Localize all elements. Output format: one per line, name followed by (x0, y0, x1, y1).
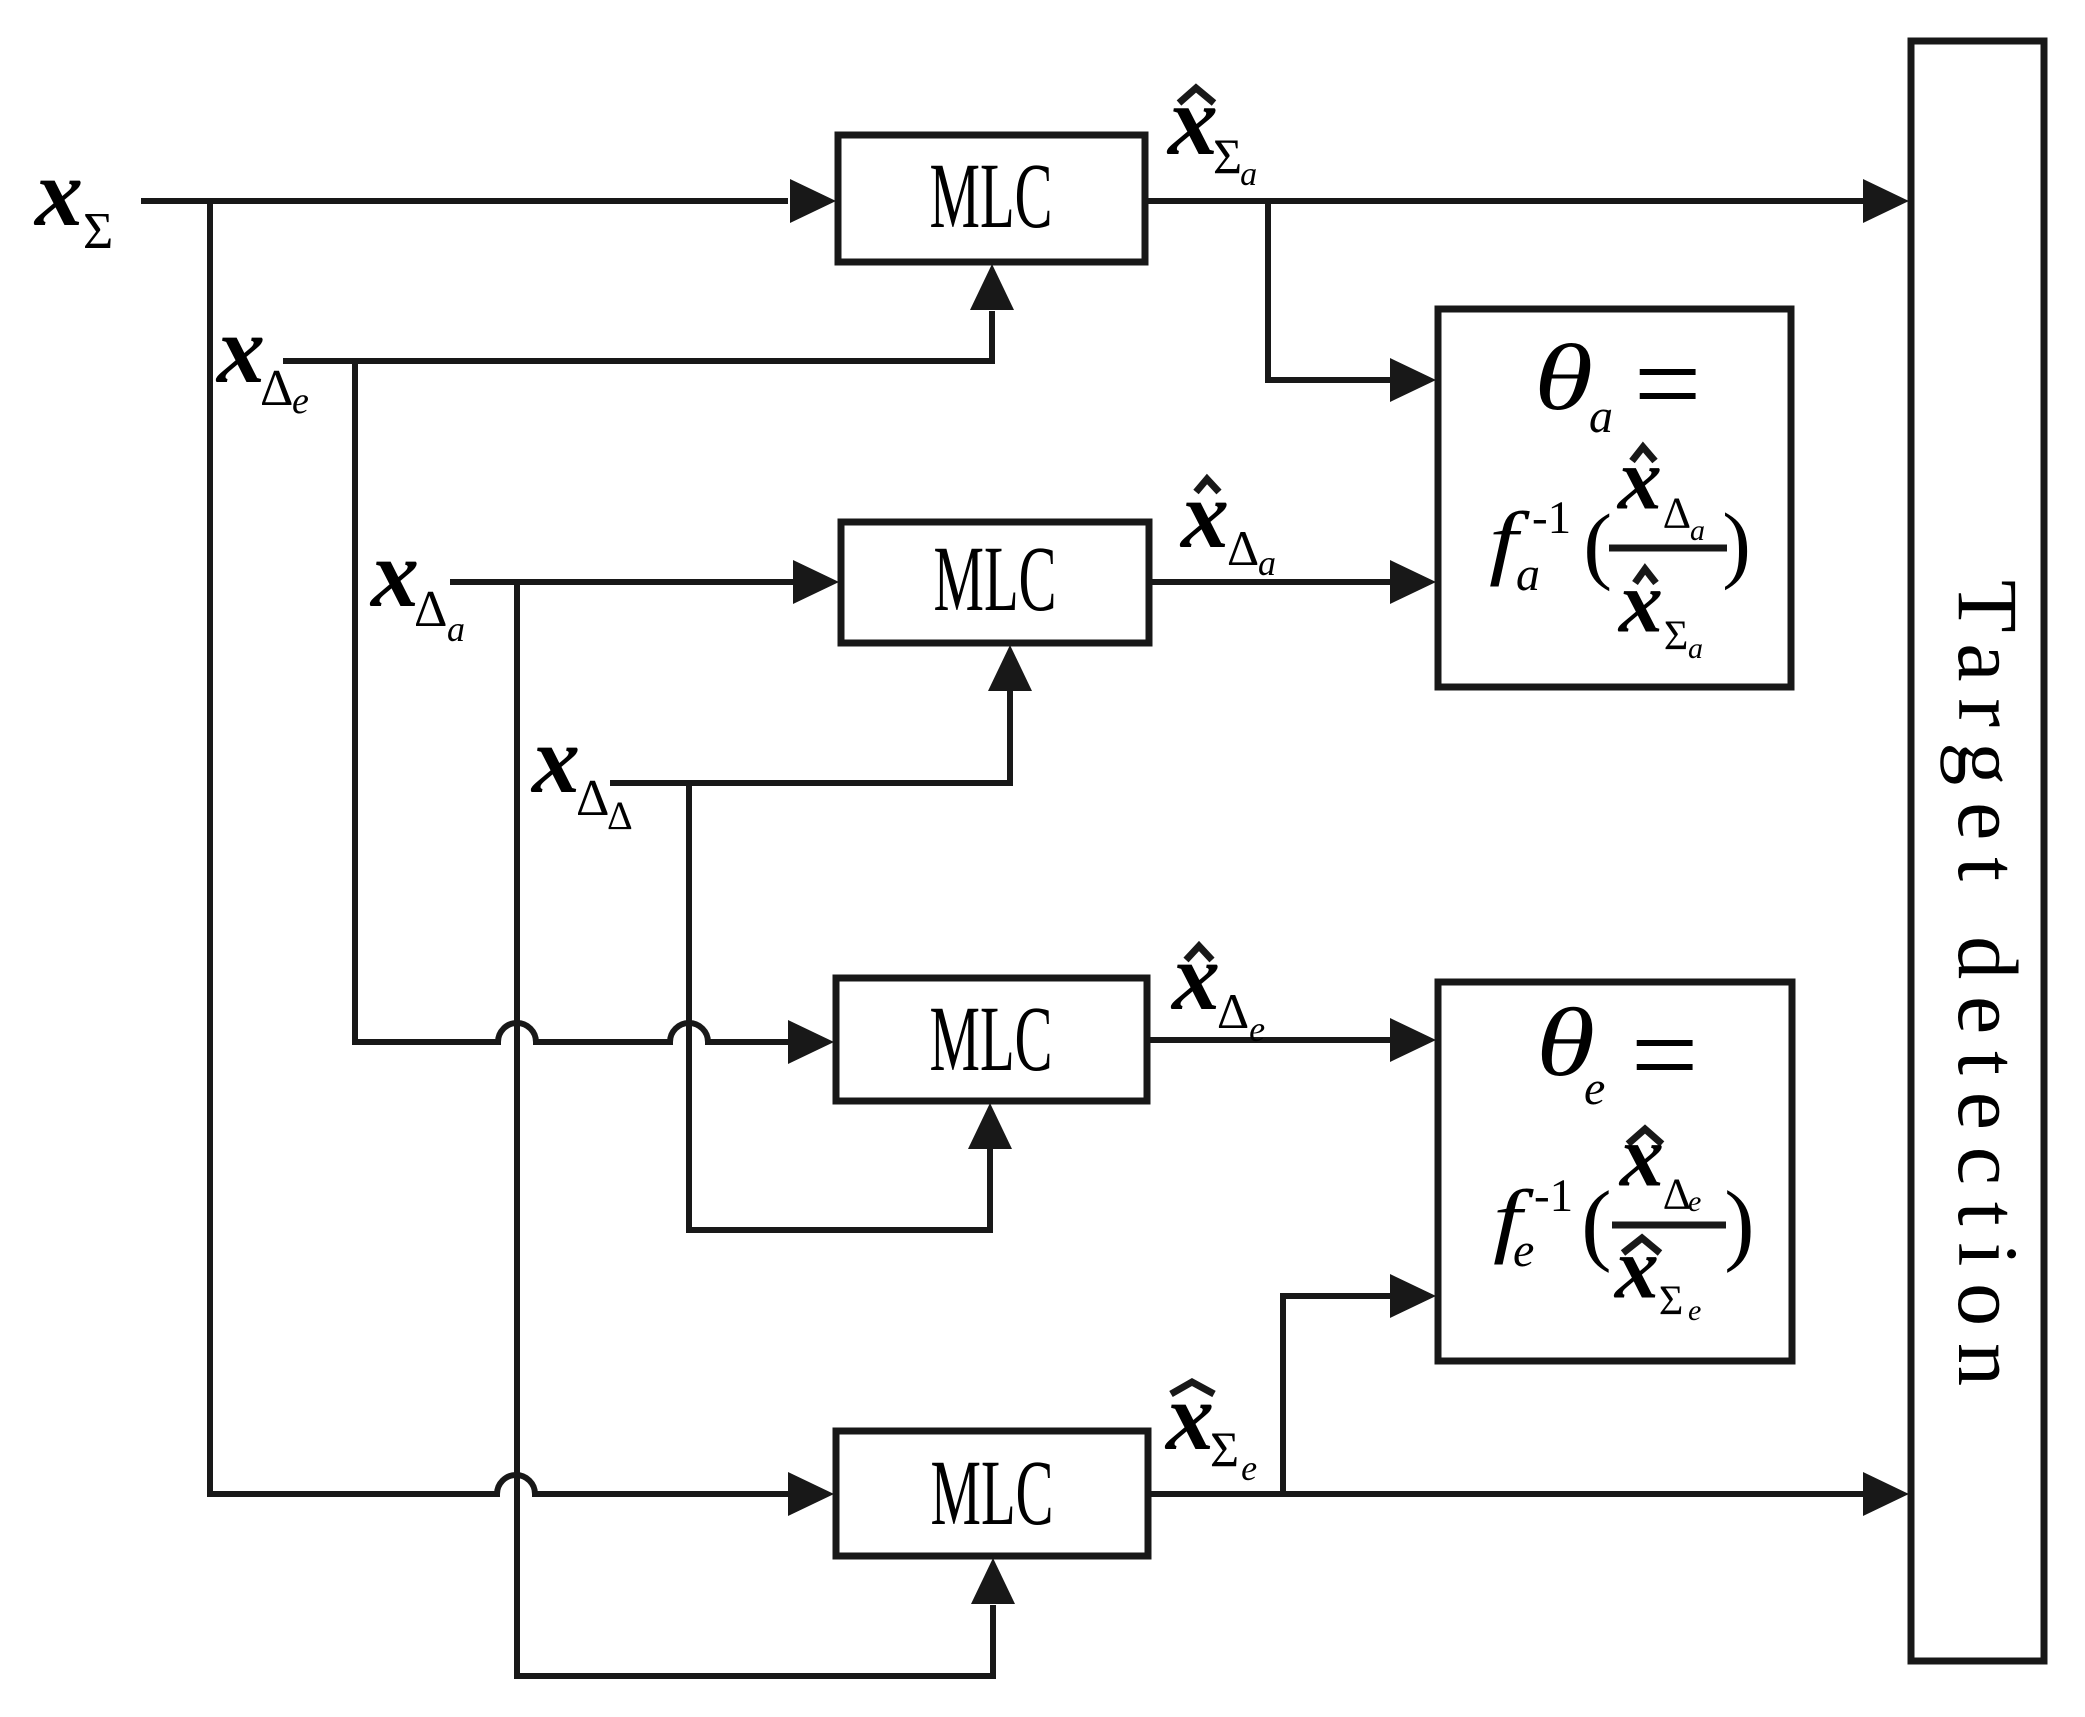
svg-text:x: x (215, 296, 265, 403)
block Target detection (1911, 41, 2044, 1661)
svg-text:e: e (1513, 1224, 1534, 1277)
wire x_sigma to MLC1 (141, 198, 788, 204)
svg-text:x: x (1616, 431, 1662, 528)
arrowhead into MLC4 bottom (971, 1558, 1015, 1604)
block MLC1 (838, 135, 1145, 262)
svg-text:Δ: Δ (576, 770, 609, 827)
svg-text:θ: θ (1534, 326, 1593, 430)
svg-text:=: = (1631, 988, 1699, 1121)
svg-text:a: a (1688, 632, 1703, 665)
svg-text:MLC: MLC (931, 1442, 1054, 1545)
hat of xhat_sigma_a (1179, 88, 1214, 103)
svg-text:Σ: Σ (1659, 1278, 1683, 1324)
svg-text:e: e (1688, 1294, 1701, 1327)
svg-text:Δ: Δ (1663, 1170, 1691, 1219)
hat of denominator xhat_sigma_e (1623, 1238, 1660, 1253)
svg-text:x: x (33, 139, 83, 246)
svg-text:x: x (369, 520, 419, 627)
svg-text:e: e (1688, 1185, 1701, 1218)
block theta_a estimator (1438, 309, 1791, 687)
svg-text:Σ: Σ (1664, 613, 1688, 659)
hat of denominator xhat_sigma_a (1635, 569, 1656, 583)
arrowhead into MLC4 left (788, 1472, 834, 1516)
svg-text:a: a (1516, 548, 1540, 601)
svg-text:): ) (1724, 1173, 1754, 1274)
arrowhead into MLC3 left (788, 1020, 834, 1064)
svg-text:e: e (292, 380, 309, 422)
arrowhead into theta_a upper input (1390, 358, 1436, 402)
svg-text:a: a (1589, 390, 1613, 443)
wire xhat_delta_a to theta_a box (1149, 579, 1392, 585)
svg-text:Σ: Σ (1210, 1421, 1239, 1477)
block MLC3 (836, 978, 1147, 1101)
fraction bar of theta_a (1609, 545, 1727, 552)
hat of xhat_sigma_e (1171, 1382, 1214, 1394)
wire xhat_sigma_a branch to theta_a box (1268, 201, 1392, 380)
svg-text:(: ( (1583, 496, 1612, 592)
svg-text:x: x (1613, 1220, 1659, 1317)
hat of numerator xhat_delta_e (1628, 1129, 1662, 1144)
svg-text:Δ: Δ (1663, 489, 1691, 538)
arrowhead into theta_a lower input (1390, 560, 1436, 604)
hat of numerator xhat_delta_a (1632, 447, 1655, 461)
wire xhat_sigma_a to Target detection (1145, 198, 1864, 204)
block MLC2 (841, 522, 1149, 643)
svg-text:x: x (1164, 1363, 1214, 1470)
svg-text:(: ( (1581, 1173, 1611, 1274)
svg-text:x: x (1618, 1108, 1664, 1205)
svg-text:e: e (1241, 1448, 1257, 1488)
svg-text:x: x (1170, 923, 1220, 1030)
wire x_delta_a branch down to MLC4 bottom (517, 582, 993, 1676)
arrowhead into theta_e lower input (1390, 1274, 1436, 1318)
svg-text:Δ: Δ (260, 360, 293, 417)
arrowhead into Target detection top (1863, 179, 1909, 223)
svg-text:e: e (1584, 1062, 1605, 1115)
svg-text:x: x (1166, 65, 1218, 176)
svg-text:Σ: Σ (1213, 128, 1242, 184)
arrowhead into theta_e upper input (1390, 1018, 1436, 1062)
block theta_e estimator (1438, 982, 1792, 1361)
block MLC4 (836, 1431, 1148, 1556)
svg-text:MLC: MLC (930, 988, 1053, 1091)
arrowhead into MLC2 left (793, 560, 839, 604)
wire x_sigma branch down to MLC4 (210, 198, 788, 1494)
hat of xhat_delta_a (1196, 479, 1219, 492)
arrowhead into MLC1 bottom (970, 264, 1014, 310)
svg-text:a: a (447, 609, 465, 649)
wire x_delta_a to MLC2 (450, 579, 793, 585)
svg-text:-1: -1 (1534, 1170, 1573, 1222)
wire xhat_sigma_e to Target detection (1148, 1491, 1864, 1497)
svg-text:-1: -1 (1532, 492, 1571, 544)
wire x_delta_e branch down to MLC3 (355, 361, 788, 1042)
svg-text:x: x (1617, 554, 1663, 651)
svg-text:Σ: Σ (83, 203, 113, 260)
svg-text:x: x (530, 706, 580, 813)
svg-text:MLC: MLC (934, 528, 1057, 631)
svg-text:MLC: MLC (930, 145, 1053, 248)
arrowhead into Target detection bottom (1863, 1472, 1909, 1516)
arrowhead into MLC1 left (790, 179, 836, 223)
svg-text:x: x (1179, 461, 1229, 568)
svg-text:=: = (1634, 317, 1702, 450)
wire xhat_sigma_e branch to theta_e box (1283, 1296, 1392, 1494)
svg-text:Δ: Δ (1227, 520, 1259, 576)
wire xhat_delta_e to theta_e box (1147, 1037, 1392, 1043)
svg-text:a: a (1240, 156, 1257, 193)
svg-text:e: e (1249, 1009, 1265, 1049)
svg-text:): ) (1722, 495, 1751, 591)
svg-text:Δ: Δ (607, 793, 633, 838)
wire x_delta_delta branch down to MLC3 bottom (689, 783, 990, 1230)
svg-text:a: a (1690, 514, 1705, 547)
hat of xhat_delta_e (1186, 946, 1212, 960)
wire x_delta_e to MLC1 bottom (283, 311, 992, 361)
arrowhead into MLC2 bottom (988, 645, 1032, 691)
arrowhead into MLC3 bottom (968, 1103, 1012, 1149)
svg-text:a: a (1258, 543, 1276, 583)
wire x_delta_delta to MLC2 bottom (610, 691, 1010, 783)
fraction bar of theta_e (1612, 1222, 1726, 1229)
svg-text:Δ: Δ (1217, 983, 1249, 1039)
svg-text:Δ: Δ (414, 581, 447, 638)
